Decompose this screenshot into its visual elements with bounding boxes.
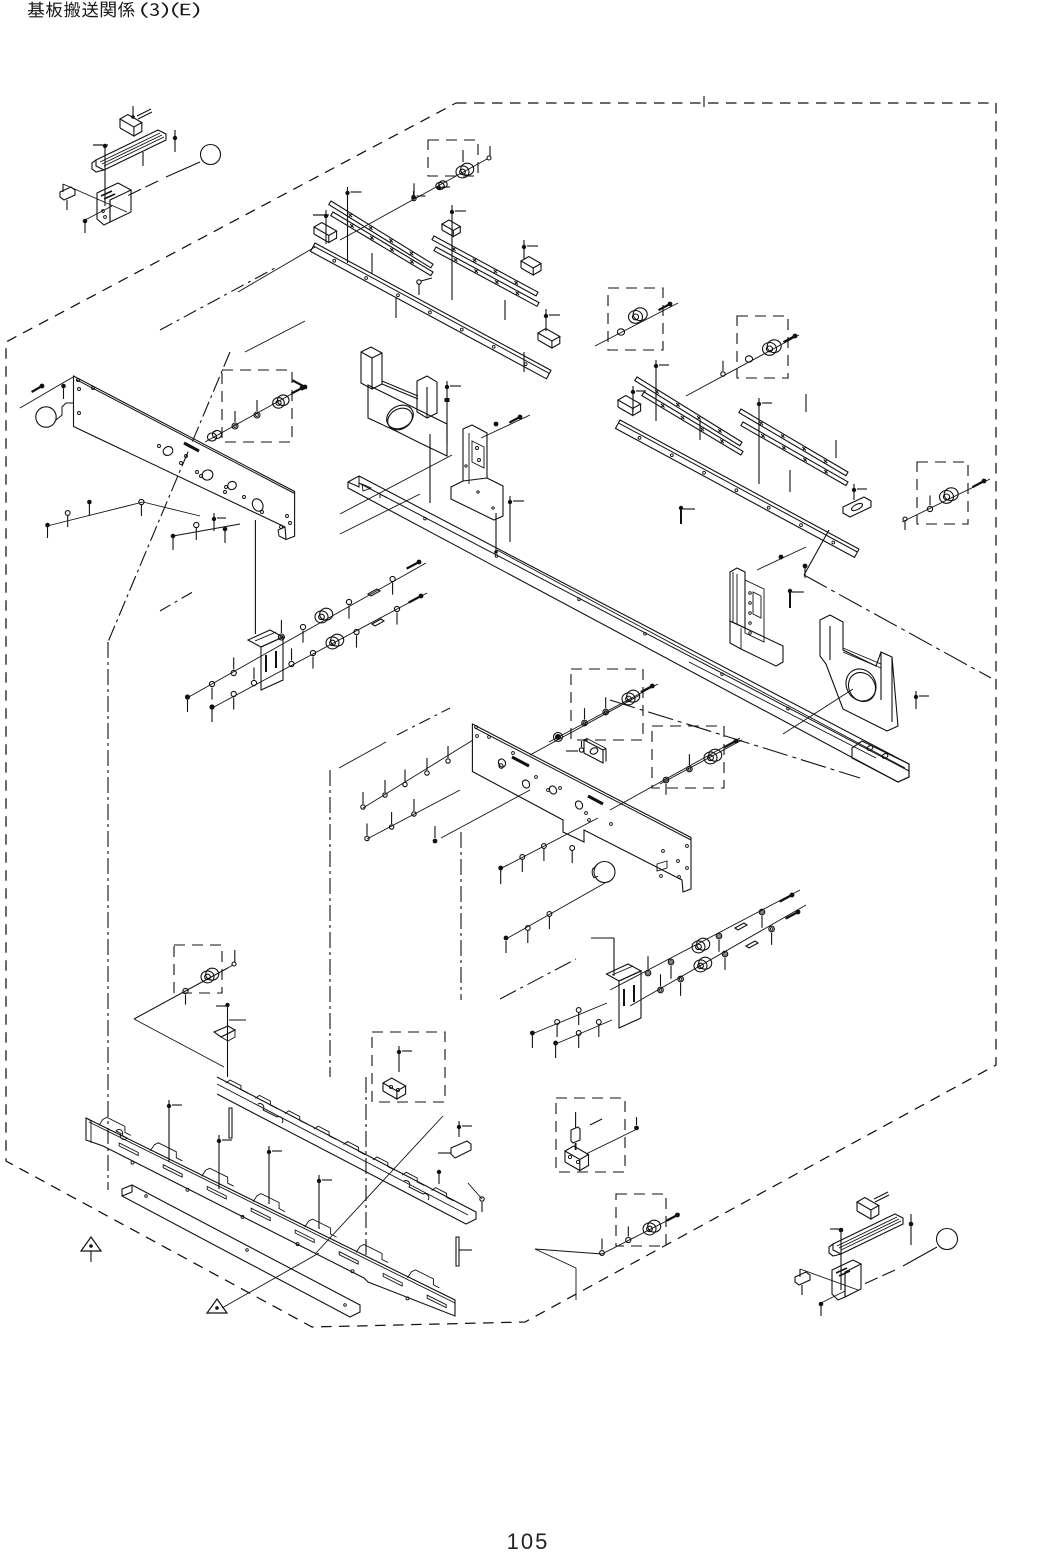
motor hole I5a: [840, 663, 882, 706]
washer F6b: [232, 423, 238, 429]
phantom vertical center-left: [329, 770, 331, 1077]
tick A6: [142, 152, 144, 166]
screw M1g diag: [790, 893, 795, 898]
phantom vertical center: [365, 1077, 367, 1257]
washer M2f: [769, 926, 775, 932]
leader N5a: [222, 1253, 319, 1308]
post G3: [417, 376, 437, 418]
rail E7 main wide: [616, 420, 860, 557]
leader M0: [506, 883, 605, 939]
screw row L2: [367, 790, 460, 839]
clip U6: [795, 1272, 810, 1285]
fence L4: [339, 742, 386, 768]
screw I2: [779, 555, 784, 560]
rail E6 thin: [741, 422, 848, 486]
mid plate K slots: [512, 757, 529, 766]
roller O1: [206, 968, 219, 980]
roller B1: [461, 163, 474, 175]
screw N11: [480, 1197, 484, 1201]
leader F3: [20, 377, 73, 408]
phantom line upper-left: [108, 352, 230, 642]
washer M1f: [759, 909, 765, 915]
beam H small notch: [380, 494, 387, 498]
screw row M4: [532, 1003, 607, 1034]
motor bracket I5 posts: [819, 620, 821, 656]
bracket A7 L-bracket: [97, 183, 131, 225]
axis leader S1: [549, 684, 658, 742]
sensor strip U2: [833, 1214, 903, 1254]
screw A10: [83, 219, 88, 224]
roller S1a: [627, 690, 640, 702]
ball S1d: [555, 734, 561, 740]
plate N2 oval slot: [116, 1130, 127, 1140]
rail C1 thin: [329, 201, 433, 268]
axis leader B: [340, 159, 487, 240]
washer J2d: [289, 661, 294, 666]
plate F holes: [162, 445, 175, 457]
bushing E2b: [745, 356, 752, 362]
boundary tick: [703, 96, 705, 107]
washer J1b: [209, 681, 214, 686]
clamp block C8: [442, 220, 460, 231]
block P1: [383, 1078, 406, 1091]
phantom diagonal platform right: [804, 575, 991, 678]
screw I3: [803, 564, 808, 569]
leader J4 vertical: [254, 520, 256, 634]
pin N7: [456, 1237, 459, 1266]
strap I5b: [843, 648, 881, 664]
screw C7: [324, 214, 328, 218]
detail box S2 dashed: [652, 726, 724, 788]
svg-text:105: 105: [507, 1529, 550, 1554]
roller M1c: [697, 938, 710, 950]
screw N10: [437, 1170, 441, 1174]
clamp block C6: [314, 223, 337, 236]
washer J1e: [300, 624, 305, 629]
leader V2: [446, 441, 448, 443]
plate N2 left cap: [86, 1118, 91, 1143]
detail box E2 dashed: [737, 316, 788, 378]
strip U2 end fold: [829, 1244, 841, 1256]
phantom J5: [160, 590, 196, 611]
leader beam V7: [497, 550, 905, 768]
axis leader O: [134, 965, 233, 1019]
screw tip O3: [232, 962, 236, 966]
pin Q3: [575, 1112, 577, 1128]
screw M2g diag: [796, 910, 801, 915]
washer E2c: [721, 372, 725, 376]
leader U7: [799, 1269, 801, 1277]
washer M1a: [645, 970, 651, 976]
bracket I1 holes: [749, 592, 752, 595]
detail box E1 dashed: [608, 288, 663, 350]
washer J1g: [346, 599, 351, 604]
plate N2 top inner: [89, 1122, 455, 1303]
phantom vertical mid-plate: [460, 832, 462, 1000]
axis leader E14: [902, 479, 990, 522]
screw E9: [631, 390, 635, 394]
plate N2 tabs: [99, 1117, 131, 1135]
axis leader S2: [660, 740, 742, 784]
washer F6c: [254, 412, 260, 418]
rail E5 thin: [739, 409, 848, 476]
bracket I1 foot: [730, 621, 783, 666]
screw I7 threaded: [680, 510, 682, 524]
sensor box A1: [120, 115, 142, 128]
roller J1f: [320, 608, 333, 620]
hook F2: [56, 403, 74, 420]
grommet F8a: [139, 499, 144, 504]
fence N13: [134, 1019, 224, 1067]
tick B5: [462, 150, 464, 162]
left plate F panel: [74, 376, 295, 540]
clamp block C12: [538, 329, 560, 342]
screw J1a: [185, 694, 190, 699]
roller E1a: [633, 308, 647, 321]
plain bar N3: [122, 1185, 360, 1317]
screw F10: [212, 517, 216, 521]
grommet J1d: [278, 634, 284, 640]
bracket G6 holes: [465, 465, 467, 467]
mid plate K top inner: [475, 728, 691, 840]
roller S2c: [709, 749, 722, 761]
plate F top edge inner: [76, 380, 295, 494]
screw R3 diag: [675, 1213, 680, 1218]
screw G8 diag: [518, 415, 523, 420]
bracket U5: [832, 1260, 861, 1300]
screw row K5: [500, 818, 598, 869]
rail E4 thin: [642, 392, 743, 455]
bracket I1 inner slot: [753, 592, 761, 618]
phantom line left vertical: [107, 642, 109, 1190]
spacer M1e: [735, 923, 747, 930]
axis K2 right: [610, 738, 740, 810]
axis leader E2: [686, 335, 799, 396]
leader V8: [340, 455, 452, 514]
fence R5: [535, 1249, 576, 1268]
washer R4: [600, 1251, 605, 1256]
washer S2a: [663, 777, 669, 783]
screw G10: [508, 500, 512, 504]
leader line C left: [238, 247, 315, 292]
washer J2g: [354, 629, 359, 634]
balloon circle A11: [201, 145, 221, 165]
bracket N15: [214, 1026, 235, 1037]
leader A12 to balloon: [166, 162, 200, 177]
plate N8: [451, 1141, 471, 1158]
beam H holes: [424, 517, 427, 520]
bushing E1b: [617, 329, 624, 335]
triangle marker N4: [81, 1237, 101, 1251]
page title 基板搬送関係（3）（E）: [28, 2, 200, 18]
balloon circle U9: [937, 1229, 958, 1250]
detent Q2: [571, 1127, 580, 1143]
small plate K3: [584, 740, 603, 763]
clamp block E8: [618, 396, 641, 409]
detail box R dashed: [616, 1194, 666, 1246]
rail C2 thin: [331, 212, 433, 276]
screw I4 threaded: [789, 592, 791, 608]
detail box Q dashed: [556, 1098, 625, 1172]
axis leader R: [602, 1214, 680, 1254]
plate F bottom notch: [278, 527, 286, 540]
plate N2 holes: [131, 1161, 134, 1164]
washer O2: [183, 988, 188, 993]
leader Q5: [586, 1130, 635, 1154]
detail box E14 dashed: [917, 462, 968, 524]
screw C11: [522, 245, 526, 249]
washer M1b: [668, 959, 674, 965]
clip rail N1 top: [217, 1077, 476, 1224]
screw J2j diag: [419, 594, 424, 599]
phantom leader to box B: [160, 268, 275, 330]
roller E14a: [944, 488, 958, 501]
beam H right end block: [852, 741, 909, 782]
rail N1 slots: [258, 1104, 283, 1123]
post G1: [361, 347, 382, 389]
ticks rails E: [699, 420, 701, 440]
washer S2b: [687, 766, 693, 772]
plate F slot: [184, 443, 199, 451]
screw U8: [819, 1302, 824, 1307]
screw J1j diag: [417, 560, 422, 565]
axis leader E1: [595, 303, 678, 346]
roller M2c: [699, 957, 712, 969]
washer B4: [412, 196, 416, 200]
leader V1: [429, 434, 431, 503]
detail box B dashed: [428, 140, 478, 176]
axis J2: [212, 593, 427, 708]
circle balloon F1: [36, 407, 56, 427]
sensor box U1: [857, 1198, 879, 1211]
roller R1: [648, 1220, 661, 1232]
screw K4: [579, 748, 583, 752]
screw E10: [654, 364, 658, 368]
screw C17 small: [417, 280, 421, 284]
screw A4: [173, 136, 177, 140]
washer J2b: [231, 691, 236, 696]
clamp block C10: [521, 257, 541, 269]
strap G4: [382, 381, 418, 396]
leader A9: [62, 184, 64, 192]
screw J2a: [209, 704, 214, 709]
screw F5: [61, 384, 66, 389]
pin N6: [229, 1108, 232, 1138]
leader U10: [903, 1247, 937, 1266]
washer S1b: [603, 709, 609, 715]
screw Q4: [634, 1126, 639, 1131]
screw U4: [909, 1222, 914, 1227]
dashed box F7: [222, 370, 292, 442]
dashed boundary outline: [6, 103, 996, 1327]
pin A8b: [66, 200, 68, 210]
bushing F6a: [207, 433, 216, 441]
roller E2a: [767, 340, 781, 353]
hole G2a ellipse: [382, 400, 417, 433]
screw U3: [839, 1228, 844, 1233]
screw row M5: [556, 1020, 612, 1044]
screw row L1: [363, 740, 473, 808]
screw E14c diag: [982, 479, 987, 484]
strip end fold: [92, 160, 104, 172]
main beam H: [348, 476, 909, 782]
rail N1 teeth: [226, 1080, 248, 1093]
screw C15: [411, 195, 415, 199]
screw F4 diag: [40, 384, 45, 389]
leader N12: [316, 1116, 443, 1253]
plate G2 with hole: [368, 385, 447, 456]
plate E12: [843, 497, 871, 517]
sensor pin U1a: [874, 1192, 888, 1199]
mid plate K holes: [497, 758, 507, 769]
washer J1i: [390, 576, 395, 581]
washer M2a: [658, 987, 664, 993]
screw E15 small: [903, 517, 907, 521]
rail C5 thin right: [434, 247, 539, 306]
phantom M7: [500, 959, 576, 999]
tick Q6: [590, 1119, 602, 1125]
detail box P dashed: [372, 1032, 445, 1102]
screw C16: [437, 186, 441, 190]
screw E2d diag: [793, 334, 798, 339]
mid plate K panel: [472, 724, 691, 892]
detail box S1 dashed: [571, 669, 643, 740]
screw S2d diag: [734, 739, 739, 744]
beam H left cap: [348, 476, 359, 487]
leader V5 long: [535, 1249, 602, 1254]
mid plate K slot hole: [657, 861, 667, 871]
switch body Q1: [565, 1146, 589, 1160]
pin U6a: [801, 1285, 803, 1295]
spacer J1h: [368, 589, 380, 596]
ticks on rails: [371, 253, 373, 273]
roller J2f: [331, 634, 344, 646]
screw C9: [450, 210, 454, 214]
screw P2: [397, 1050, 401, 1054]
plate N2 slots row: [119, 1143, 138, 1156]
bushing B2: [436, 182, 444, 189]
screw N9: [457, 1125, 461, 1129]
screw row F8: [47, 502, 143, 526]
roller F6d: [277, 395, 289, 406]
axis K1 upper: [530, 695, 640, 755]
screw E13: [852, 488, 856, 492]
washer R2: [626, 1237, 631, 1242]
screw G7: [494, 422, 499, 427]
rail E3 thin: [635, 377, 742, 446]
bracket M3: [607, 964, 642, 981]
axis F6 parts right: [205, 386, 306, 442]
washer M2b: [678, 976, 684, 982]
rail C4 thin right: [432, 236, 538, 296]
screw row F9: [173, 524, 240, 536]
screw S1e diag: [650, 684, 655, 689]
washer J1c: [231, 670, 236, 675]
phantom diagonal beam lower: [610, 700, 860, 778]
washer S1c: [582, 720, 588, 726]
axis M1: [610, 890, 800, 990]
screw L3: [433, 839, 438, 844]
screw G5: [445, 385, 449, 389]
bracket J3: [248, 630, 283, 647]
bracket G6 inner plate: [472, 441, 484, 468]
screw E1c diag: [668, 302, 673, 307]
bracket I1 flange: [745, 580, 764, 642]
washer J2i: [394, 606, 399, 611]
screw A5: [132, 106, 134, 117]
leader V9: [340, 494, 420, 534]
triangle marker N5: [207, 1299, 227, 1313]
leader N14: [227, 1005, 229, 1077]
sensor strip A2 slotted plate: [96, 130, 166, 170]
guide plate N2: [86, 1118, 455, 1316]
screw E11: [757, 402, 761, 406]
washer M2d: [722, 951, 728, 957]
detail box O dashed: [174, 945, 222, 993]
rail C3 main wide: [311, 243, 552, 379]
spacer M2e: [746, 941, 758, 948]
phantom J6: [397, 708, 450, 735]
screw C14: [345, 191, 349, 195]
sensor pin A1: [137, 109, 151, 116]
axis J1: [187, 563, 426, 698]
screw G9 threaded: [446, 386, 448, 388]
screw C13: [544, 314, 548, 318]
screw A3: [103, 144, 107, 148]
mid plate K big hole: [594, 862, 615, 883]
washer E14b: [927, 506, 932, 511]
fence M6: [613, 938, 615, 976]
screw F6e diag: [300, 386, 305, 391]
leader V10 bracket foot: [495, 513, 497, 552]
screws on rail N: [167, 1104, 171, 1108]
washer J2c: [251, 680, 256, 685]
motor bracket I5: [820, 615, 898, 731]
screw tip B3: [487, 156, 491, 160]
clip A8: [60, 187, 75, 200]
washer M1d: [716, 933, 722, 939]
bracket I1 tall: [730, 568, 745, 628]
leader line C left lower: [245, 321, 305, 352]
screw C18 diag: [303, 385, 308, 390]
washer J2e: [310, 650, 315, 655]
screw I6: [914, 695, 918, 699]
leader V3 crossing: [689, 662, 876, 758]
bracket G6 tall: [451, 425, 503, 520]
spacer J2h: [372, 619, 384, 626]
axis M2: [630, 905, 806, 1006]
leader V4: [783, 689, 853, 734]
leader F8b: [143, 502, 200, 516]
